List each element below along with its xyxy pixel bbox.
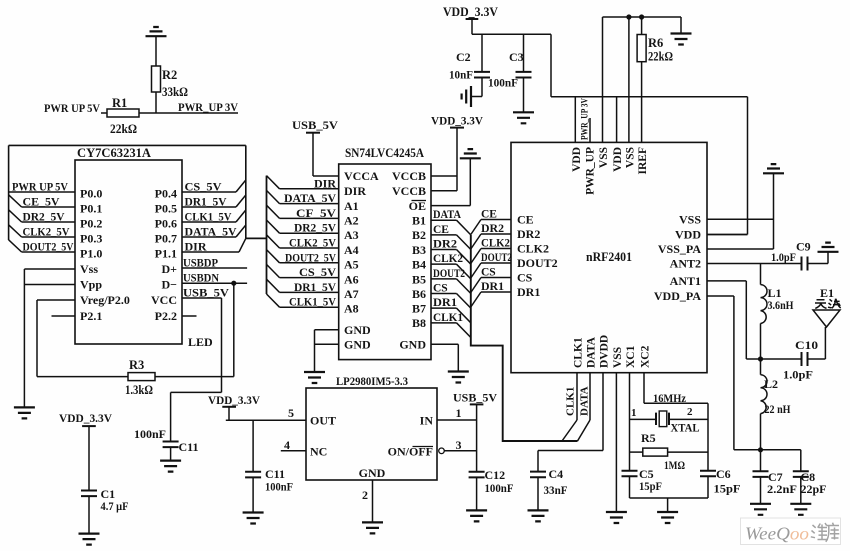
svg-text:10nF: 10nF bbox=[449, 68, 473, 82]
svg-text:DR2: DR2 bbox=[481, 223, 504, 235]
label R5 bbox=[641, 431, 685, 472]
antenna E1 bbox=[813, 310, 840, 359]
svg-text:A5: A5 bbox=[344, 258, 359, 272]
svg-text:DVDD: DVDD bbox=[599, 335, 611, 368]
wire USBDP bbox=[182, 256, 247, 270]
svg-text:P0.3: P0.3 bbox=[80, 232, 102, 246]
capacitor C10 bbox=[761, 352, 826, 366]
nRF-side bus-entry flags (CE..DR1) bbox=[471, 209, 512, 308]
svg-text:VDD_3.3V: VDD_3.3V bbox=[431, 114, 483, 128]
regulator U3 LP2980IM5-3.3 box bbox=[306, 388, 437, 480]
svg-text:Vss: Vss bbox=[80, 262, 98, 276]
wire VSS bottom to ground bbox=[615, 373, 617, 512]
ground (inverted) above R2 bbox=[146, 27, 167, 66]
svg-text:PWR_UP 3V: PWR_UP 3V bbox=[178, 100, 238, 114]
svg-text:C10: C10 bbox=[795, 338, 818, 352]
svg-text:VDD_PA: VDD_PA bbox=[654, 289, 701, 303]
svg-text:A1: A1 bbox=[344, 199, 359, 213]
label C6 bbox=[714, 467, 741, 496]
svg-text:3.6nH: 3.6nH bbox=[768, 298, 795, 312]
svg-text:100nF: 100nF bbox=[265, 480, 293, 494]
svg-text:1: 1 bbox=[631, 407, 637, 419]
svg-text:CLK2: CLK2 bbox=[517, 242, 549, 256]
wire VDD pin 2 (top) bbox=[616, 97, 618, 143]
resistor R6 bbox=[637, 17, 646, 142]
label XTAL pins bbox=[631, 406, 700, 435]
svg-text:VDD: VDD bbox=[571, 147, 583, 172]
svg-text:CLK1: CLK1 bbox=[573, 337, 585, 368]
svg-text:CLK2: CLK2 bbox=[433, 253, 463, 265]
label C2 bbox=[449, 50, 473, 82]
supply USB_5V (at IN) bbox=[453, 391, 497, 472]
capacitor C7 bbox=[753, 450, 769, 504]
svg-text:VDD_3.3V: VDD_3.3V bbox=[443, 5, 498, 19]
wire DVDD to C4 bbox=[538, 373, 603, 472]
svg-text:PWR UP 5V: PWR UP 5V bbox=[44, 101, 100, 115]
svg-text:DIR: DIR bbox=[185, 240, 207, 254]
capacitor C11 (left) bbox=[163, 442, 179, 461]
svg-text:CLK2: CLK2 bbox=[481, 238, 510, 250]
svg-text:DIR: DIR bbox=[344, 184, 366, 198]
svg-text:1.3kΩ: 1.3kΩ bbox=[125, 383, 153, 397]
svg-text:CE_5V: CE_5V bbox=[23, 195, 60, 209]
svg-text:D−: D− bbox=[161, 278, 177, 292]
svg-text:B4: B4 bbox=[412, 258, 426, 272]
bus outline CY top bbox=[9, 144, 246, 146]
svg-text:DOUT2: DOUT2 bbox=[517, 256, 558, 270]
svg-text:IN: IN bbox=[420, 414, 434, 428]
nRF top pin labels (vertical) bbox=[571, 147, 649, 195]
resistor R2 bbox=[152, 66, 161, 113]
svg-text:GND: GND bbox=[344, 323, 371, 337]
flag PWR_UP 3V (vertical) bbox=[581, 98, 591, 143]
label C11a bbox=[134, 427, 199, 454]
capacitor C11 (second) bbox=[245, 472, 261, 513]
svg-text:GND: GND bbox=[344, 338, 371, 352]
svg-text:B6: B6 bbox=[412, 287, 426, 301]
svg-text:P2.2: P2.2 bbox=[155, 309, 177, 323]
svg-text:P0.7: P0.7 bbox=[155, 232, 177, 246]
svg-text:R2: R2 bbox=[162, 68, 177, 82]
svg-text:DR1: DR1 bbox=[433, 297, 457, 309]
wire R3 to USBDN bbox=[155, 283, 234, 376]
svg-text:R5: R5 bbox=[641, 431, 656, 445]
svg-text:VCCA: VCCA bbox=[344, 169, 379, 183]
wire VSS pin 2 (top) bbox=[628, 17, 630, 142]
svg-text:VSS_PA: VSS_PA bbox=[658, 242, 701, 256]
inductor L1 bbox=[758, 264, 767, 362]
svg-text:1MΩ: 1MΩ bbox=[664, 458, 685, 472]
nRF right pin labels bbox=[654, 212, 701, 303]
label C4 bbox=[544, 467, 568, 497]
svg-text:VSS: VSS bbox=[679, 212, 701, 226]
pin GND bbox=[359, 466, 386, 522]
svg-text:WeeQoo: WeeQoo bbox=[745, 524, 809, 544]
wire ANT1 bbox=[707, 281, 761, 359]
wire VDD rail bbox=[472, 34, 748, 234]
svg-text:15pF: 15pF bbox=[714, 482, 741, 496]
svg-text:R1: R1 bbox=[112, 96, 127, 110]
svg-text:CLK2_5V: CLK2_5V bbox=[289, 236, 336, 250]
capacitor C2 with rotated ground bbox=[462, 34, 490, 107]
svg-text:DOUT2_5V: DOUT2_5V bbox=[285, 250, 336, 264]
svg-text:DOUT2_5V: DOUT2_5V bbox=[23, 240, 74, 254]
svg-text:DOUT2: DOUT2 bbox=[481, 252, 512, 264]
svg-text:P0.2: P0.2 bbox=[80, 217, 102, 231]
nRF left pin labels bbox=[517, 213, 558, 300]
svg-text:33nF: 33nF bbox=[544, 483, 568, 497]
wire USBDN with junction bbox=[182, 271, 247, 286]
bus SN74 left vertical bbox=[266, 176, 268, 294]
chip CY7C63231A box bbox=[75, 160, 182, 344]
ground (inverted) C9 bbox=[818, 243, 839, 252]
svg-text:VDD: VDD bbox=[612, 147, 624, 172]
wire VDD right bbox=[707, 234, 748, 236]
capacitor C9 bbox=[802, 252, 829, 271]
svg-text:22pF: 22pF bbox=[801, 482, 827, 496]
wire VSS_PA to ground bbox=[707, 173, 774, 249]
svg-text:4.7 μF: 4.7 μF bbox=[101, 499, 129, 513]
svg-text:VDD_3.3V: VDD_3.3V bbox=[208, 393, 260, 407]
svg-text:CS: CS bbox=[433, 283, 448, 295]
svg-text:XC2: XC2 bbox=[640, 345, 652, 368]
flag DATA (vertical) bbox=[578, 373, 591, 441]
svg-text:L2: L2 bbox=[764, 377, 778, 391]
label R2 value bbox=[162, 68, 188, 99]
ground C12 bbox=[466, 510, 487, 521]
crystal XTAL bbox=[630, 411, 709, 427]
capacitor C6 bbox=[700, 471, 716, 498]
svg-text:NC: NC bbox=[310, 445, 327, 459]
svg-text:DR1: DR1 bbox=[481, 281, 504, 293]
svg-text:22kΩ: 22kΩ bbox=[648, 50, 673, 64]
svg-text:USB_5V: USB_5V bbox=[453, 391, 497, 405]
svg-text:16MHz: 16MHz bbox=[653, 391, 687, 405]
svg-text:XTAL: XTAL bbox=[671, 421, 700, 435]
ground C4 bbox=[528, 510, 549, 521]
bus outline CY right edge bbox=[245, 145, 247, 238]
wire USB_5V (VCC pin) bbox=[182, 286, 229, 300]
svg-text:USBDN: USBDN bbox=[183, 271, 219, 285]
label C3 bbox=[488, 50, 524, 90]
svg-text:CS: CS bbox=[517, 271, 533, 285]
svg-text:DR2: DR2 bbox=[517, 227, 540, 241]
svg-text:LP2980IM5-3.3: LP2980IM5-3.3 bbox=[336, 374, 408, 388]
svg-text:CS_5V: CS_5V bbox=[299, 265, 336, 279]
svg-text:5: 5 bbox=[288, 406, 294, 420]
resistor R3 bbox=[128, 373, 155, 381]
svg-text:CE: CE bbox=[433, 224, 449, 236]
svg-text:100nF: 100nF bbox=[488, 76, 518, 90]
label C9 bbox=[771, 240, 811, 265]
svg-text:B3: B3 bbox=[412, 243, 426, 257]
ground C8 bbox=[790, 504, 811, 515]
ground SN74 right bbox=[448, 372, 469, 383]
svg-text:DR2: DR2 bbox=[433, 239, 457, 251]
svg-text:C2: C2 bbox=[456, 50, 471, 64]
label C8 bbox=[801, 470, 827, 496]
supply VDD_3.3V (rail) bbox=[208, 393, 260, 420]
svg-text:GND: GND bbox=[359, 466, 386, 480]
capacitor C3 bbox=[516, 34, 532, 112]
label C11b bbox=[265, 467, 293, 494]
wire crystal bottom bbox=[630, 498, 709, 512]
svg-text:B7: B7 bbox=[412, 302, 426, 316]
label C7 bbox=[767, 470, 797, 496]
ground C7 bbox=[750, 504, 771, 515]
svg-text:VCC: VCC bbox=[151, 293, 177, 307]
svg-text:2: 2 bbox=[362, 488, 368, 502]
label PWR_UP 3V bbox=[178, 100, 238, 114]
label 16MHz bbox=[653, 391, 687, 405]
resistor R1 bbox=[107, 109, 139, 117]
svg-text:P1.0: P1.0 bbox=[80, 247, 102, 261]
svg-text:100nF: 100nF bbox=[485, 481, 514, 495]
svg-text:P1.1: P1.1 bbox=[155, 247, 177, 261]
wire ANT2 to C9 bbox=[707, 263, 802, 265]
svg-text:1: 1 bbox=[456, 406, 462, 420]
label tianxian (antenna chinese) bbox=[815, 299, 841, 309]
svg-text:DR1_5V: DR1_5V bbox=[294, 280, 336, 294]
supply USB_5V (VCCA) bbox=[292, 118, 339, 176]
wire XC2 over bbox=[644, 373, 708, 471]
ground (inverted) OE bbox=[460, 149, 481, 158]
ground top rail bbox=[671, 34, 692, 45]
svg-text:USB_5V: USB_5V bbox=[292, 118, 338, 132]
svg-text:D+: D+ bbox=[161, 262, 177, 276]
inductor L2 bbox=[758, 359, 767, 452]
ground C1 bbox=[79, 534, 100, 545]
pin ON/OFF with bubble bbox=[388, 438, 477, 459]
svg-text:DIR: DIR bbox=[314, 176, 336, 190]
capacitor C5 bbox=[622, 471, 638, 498]
svg-text:VDD: VDD bbox=[675, 228, 701, 242]
svg-text:C12: C12 bbox=[485, 468, 506, 482]
svg-text:ANT2: ANT2 bbox=[670, 257, 701, 271]
svg-text:ANT1: ANT1 bbox=[670, 274, 701, 288]
label R3 value bbox=[125, 358, 153, 397]
ground VSS bottom bbox=[606, 512, 627, 523]
svg-text:nRF2401: nRF2401 bbox=[586, 250, 632, 264]
resistor R5 bbox=[630, 448, 709, 456]
label LP2980IM5-3.3 bbox=[336, 374, 408, 388]
svg-text:C11: C11 bbox=[179, 440, 199, 454]
stub P2.2 bbox=[182, 315, 197, 317]
svg-text:A6: A6 bbox=[344, 272, 359, 286]
stub P2.1 bbox=[52, 315, 76, 317]
wire C11b tap bbox=[252, 420, 254, 472]
label C1 bbox=[101, 487, 129, 513]
svg-text:2.2nF: 2.2nF bbox=[767, 482, 797, 496]
svg-text:C9: C9 bbox=[796, 240, 811, 254]
ground C11b bbox=[243, 513, 264, 524]
wire USB_5V down to C11a bbox=[171, 298, 222, 442]
svg-text:CLK2_5V: CLK2_5V bbox=[23, 225, 70, 239]
svg-text:CLK1: CLK1 bbox=[565, 387, 577, 416]
svg-text:SN74LVC4245A: SN74LVC4245A bbox=[345, 146, 424, 160]
pin NC bbox=[281, 438, 328, 459]
label E1 bbox=[820, 286, 834, 300]
CY left bus-entry flags (PWR UP 5V, CE_5V, DR2_5V, CLK2_5V, DOUT2_5V) bbox=[9, 180, 75, 254]
svg-text:B2: B2 bbox=[412, 228, 426, 242]
svg-text:Vpp: Vpp bbox=[80, 278, 102, 292]
svg-text:VSS: VSS bbox=[612, 347, 624, 368]
chip SN74LVC4245A box bbox=[339, 164, 431, 360]
pin IN bbox=[420, 406, 477, 428]
label R1 value bbox=[110, 96, 137, 136]
svg-text:A3: A3 bbox=[344, 228, 359, 242]
svg-text:VDD_3.3V: VDD_3.3V bbox=[59, 411, 112, 425]
svg-text:CS_5V: CS_5V bbox=[185, 180, 222, 194]
svg-text:DATA: DATA bbox=[579, 386, 591, 416]
chip SN74 pin labels bbox=[344, 169, 426, 351]
ground SN74 left bbox=[304, 372, 325, 383]
svg-text:PWR UP 5V: PWR UP 5V bbox=[12, 180, 68, 194]
flag CLK1 (vertical) bbox=[562, 373, 577, 441]
svg-text:B8: B8 bbox=[412, 316, 426, 330]
svg-text:P0.0: P0.0 bbox=[80, 187, 102, 201]
svg-text:XC1: XC1 bbox=[625, 345, 637, 368]
bus CY to SN74 bbox=[246, 237, 267, 239]
svg-text:2: 2 bbox=[687, 406, 693, 418]
svg-text:DR2_5V: DR2_5V bbox=[23, 210, 65, 224]
svg-text:33kΩ: 33kΩ bbox=[162, 85, 188, 99]
svg-text:USBDP: USBDP bbox=[183, 256, 218, 270]
svg-text:4: 4 bbox=[284, 438, 290, 452]
svg-text:1.0pF: 1.0pF bbox=[783, 368, 813, 382]
svg-text:3: 3 bbox=[456, 438, 462, 452]
svg-text:A2: A2 bbox=[344, 214, 359, 228]
svg-text:B1: B1 bbox=[412, 214, 426, 228]
supply VDD_3.3V (top) bbox=[443, 5, 498, 34]
svg-text:C3: C3 bbox=[509, 50, 524, 64]
CY right bus-entry flags (CS_5V, DR1_5V, CLK1_5V, DATA_5V, DIR) bbox=[182, 180, 246, 254]
svg-text:DATA_5V: DATA_5V bbox=[284, 191, 336, 205]
wire Vreg/P2.0 to R3 bbox=[37, 300, 128, 377]
SN74 B-side wires with net labels (DATA..CLK1) bbox=[431, 209, 471, 337]
svg-text:A7: A7 bbox=[344, 287, 359, 301]
svg-text:100nF: 100nF bbox=[134, 427, 166, 441]
wire 3.3V rail to OUT bbox=[226, 419, 306, 421]
watermark WeeQoo weiku bbox=[741, 518, 841, 545]
wire VSS top rail bbox=[603, 14, 682, 33]
ground CY Vss bbox=[14, 407, 35, 418]
svg-text:OUT: OUT bbox=[310, 414, 336, 428]
svg-text:R6: R6 bbox=[648, 36, 663, 50]
svg-text:CLK1_5V: CLK1_5V bbox=[289, 295, 336, 309]
ground LP2980 bbox=[362, 522, 383, 533]
svg-text:A4: A4 bbox=[344, 243, 359, 257]
svg-text:15pF: 15pF bbox=[639, 479, 662, 493]
label C10 bbox=[783, 338, 818, 382]
wire PWR UP 5V to PWR_UP 3V bbox=[101, 112, 238, 114]
supply VDD_3.3V (VCCB) bbox=[431, 114, 483, 191]
svg-text:CLK1_5V: CLK1_5V bbox=[185, 210, 232, 224]
pin OUT bbox=[288, 406, 336, 428]
svg-text:P0.5: P0.5 bbox=[155, 202, 177, 216]
svg-text:CE: CE bbox=[481, 209, 497, 221]
svg-text:C6: C6 bbox=[716, 467, 731, 481]
capacitor C8 bbox=[793, 450, 809, 504]
bus outline CY left edge bbox=[8, 145, 10, 240]
svg-text:CF_5V: CF_5V bbox=[296, 206, 336, 220]
wire SN74 GND pins to ground bbox=[315, 330, 339, 372]
ground (inverted) VSS bbox=[763, 164, 784, 173]
svg-text:LED: LED bbox=[188, 335, 213, 349]
wire SN74 right GND to ground bbox=[431, 344, 458, 371]
svg-text:DATA_5V: DATA_5V bbox=[185, 225, 237, 239]
svg-text:VSS: VSS bbox=[624, 147, 636, 168]
wire XC1 down bbox=[629, 373, 631, 471]
label LED bbox=[188, 335, 213, 349]
svg-text:DR1: DR1 bbox=[517, 285, 540, 299]
svg-text:R3: R3 bbox=[129, 358, 144, 372]
svg-text:CS: CS bbox=[481, 267, 496, 279]
svg-text:DATA: DATA bbox=[433, 209, 462, 221]
svg-text:CE: CE bbox=[517, 213, 534, 227]
ground C11a bbox=[160, 461, 181, 472]
svg-text:PWR_UP: PWR_UP bbox=[585, 147, 597, 195]
supply VDD_3.3V (C1) bbox=[59, 411, 112, 491]
svg-text:DR1_5V: DR1_5V bbox=[185, 195, 227, 209]
svg-text:P0.1: P0.1 bbox=[80, 202, 102, 216]
svg-text:A8: A8 bbox=[344, 302, 359, 316]
svg-text:DOUT2: DOUT2 bbox=[433, 268, 465, 280]
label CY7C63231A bbox=[77, 146, 151, 160]
svg-text:22 nH: 22 nH bbox=[765, 402, 792, 416]
SN74 left bus-entry flags (DIR..CLK1_5V) bbox=[267, 176, 339, 309]
capacitor C4 bbox=[530, 472, 546, 511]
wire OE to ground bbox=[431, 158, 470, 205]
label L1 bbox=[768, 286, 795, 312]
svg-text:P0.6: P0.6 bbox=[155, 217, 177, 231]
svg-text:22kΩ: 22kΩ bbox=[110, 122, 137, 136]
svg-text:DR2_5V: DR2_5V bbox=[294, 221, 336, 235]
wire Vss/Vpp to ground bbox=[24, 269, 75, 407]
label PWR UP 5V (left) bbox=[44, 101, 100, 115]
label C5 bbox=[639, 467, 662, 493]
svg-text:B5: B5 bbox=[412, 272, 426, 286]
svg-text:VCCB: VCCB bbox=[392, 169, 426, 183]
nRF bottom pin labels (vertical) bbox=[573, 335, 652, 368]
svg-text:Vreg/P2.0: Vreg/P2.0 bbox=[80, 293, 130, 307]
capacitor C1 bbox=[81, 491, 97, 534]
svg-text:CLK1: CLK1 bbox=[433, 312, 463, 324]
svg-text:CY7C63231A: CY7C63231A bbox=[77, 146, 151, 160]
svg-text:USB_5V: USB_5V bbox=[183, 286, 229, 300]
bus interconnect vertical+bottom bbox=[471, 235, 578, 441]
svg-text:1.0pF: 1.0pF bbox=[771, 250, 796, 264]
svg-text:PWR_UP 3V: PWR_UP 3V bbox=[581, 98, 591, 140]
wire VSS to ground bbox=[707, 218, 774, 220]
ground crystal bbox=[657, 512, 678, 523]
label C12 bbox=[485, 468, 514, 495]
chip CY pin labels bbox=[80, 187, 177, 324]
ground C3 bbox=[513, 112, 534, 123]
svg-text:DATA: DATA bbox=[586, 336, 598, 368]
wire to C8 bbox=[761, 449, 801, 451]
chip nRF2401 box bbox=[511, 142, 707, 372]
svg-text:C4: C4 bbox=[549, 467, 564, 481]
wire VSS pin (top) bbox=[602, 17, 604, 142]
svg-text:E1: E1 bbox=[820, 286, 834, 300]
capacitor C12 bbox=[469, 472, 485, 511]
label R6 bbox=[648, 36, 673, 64]
wire VDD pin 1 (top) bbox=[574, 97, 576, 143]
svg-text:P0.4: P0.4 bbox=[155, 187, 177, 201]
wire VDD_PA bbox=[707, 296, 761, 450]
svg-text:VSS: VSS bbox=[598, 147, 610, 168]
